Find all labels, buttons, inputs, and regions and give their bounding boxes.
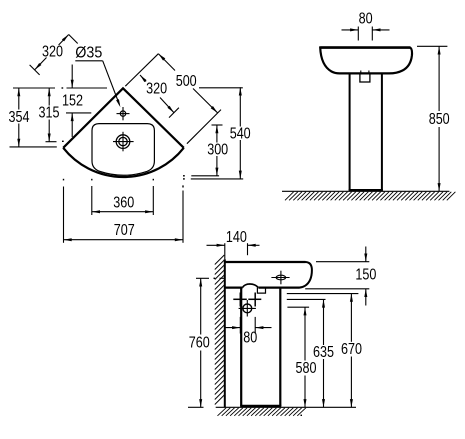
- svg-text:354: 354: [9, 109, 30, 126]
- svg-text:150: 150: [355, 267, 376, 284]
- dim 760: [196, 277, 209, 279]
- svg-text:635: 635: [313, 344, 334, 361]
- dim 300: [216, 125, 218, 143]
- dim 320 upper-right: [140, 75, 146, 82]
- dim 320 upper-left: [59, 35, 69, 46]
- dim 150: [316, 261, 369, 263]
- dim 315: [48, 88, 50, 106]
- svg-text:80: 80: [359, 11, 373, 28]
- front view: basin: [320, 48, 412, 74]
- side view: fixing hole right: [248, 298, 261, 300]
- svg-text:320: 320: [146, 81, 167, 98]
- dim 354: [18, 88, 20, 110]
- dim 540: [239, 87, 241, 126]
- dim 707: [64, 239, 184, 241]
- dim 360: [92, 211, 154, 213]
- side view: tap hole: [276, 275, 285, 280]
- dim 152: [71, 65, 73, 89]
- side view: pedestal: [240, 288, 242, 407]
- svg-text:580: 580: [296, 360, 317, 377]
- plan view: corner basin outline: [63, 88, 184, 148]
- plan view: drain crosshair: [116, 135, 130, 149]
- front view: floor with hatching: [282, 190, 449, 192]
- side view: basin profile: [225, 261, 306, 263]
- front view: pedestal: [349, 74, 351, 191]
- side view: drain: [243, 304, 252, 313]
- svg-text:315: 315: [39, 105, 60, 122]
- svg-text:320: 320: [42, 44, 63, 61]
- svg-text:Ø35: Ø35: [75, 45, 102, 62]
- svg-text:140: 140: [226, 229, 247, 246]
- svg-text:540: 540: [230, 125, 251, 142]
- side view: wall hatching: [215, 255, 225, 405]
- side view: fixing hole left: [233, 298, 247, 300]
- plan view: tap hole crosshair: [120, 111, 125, 116]
- dim 500: [158, 54, 175, 71]
- svg-text:500: 500: [176, 73, 197, 90]
- svg-text:152: 152: [62, 92, 83, 109]
- dim 80 front: [357, 27, 359, 41]
- svg-text:80: 80: [243, 330, 257, 347]
- svg-text:760: 760: [189, 335, 210, 352]
- svg-text:850: 850: [429, 111, 450, 128]
- dim 80 side: [239, 317, 241, 334]
- svg-text:360: 360: [113, 195, 134, 212]
- side view: overflow notch: [257, 288, 265, 294]
- dim 580: [287, 306, 309, 308]
- datum centerline at apex level: [13, 87, 55, 89]
- dim 670: [287, 293, 359, 295]
- dim 850: [417, 45, 447, 47]
- svg-text:670: 670: [341, 341, 362, 358]
- plan view: bowl outline: [92, 124, 154, 176]
- front view: waste detail: [360, 74, 370, 82]
- side view: floor with hatching: [216, 406, 356, 408]
- dim 140: [247, 243, 249, 255]
- dim 635: [287, 298, 326, 300]
- svg-text:300: 300: [207, 142, 228, 159]
- svg-text:707: 707: [114, 222, 135, 239]
- side view: wall: [224, 259, 226, 407]
